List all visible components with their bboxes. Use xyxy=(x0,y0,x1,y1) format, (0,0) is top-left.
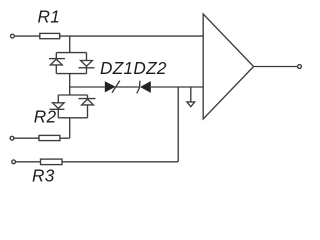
wire DZ1 to DZ2 xyxy=(116,86,140,88)
svg-text:DZ1DZ2: DZ1DZ2 xyxy=(100,58,167,78)
diode D3 (down, left branch) xyxy=(50,95,65,118)
resistor R1 xyxy=(40,33,60,38)
diode D2 (down, right branch) xyxy=(79,53,95,74)
wire node B to DZ1 xyxy=(70,86,105,88)
wire R1 to op-amp input xyxy=(60,35,204,37)
input terminal J2 xyxy=(10,136,14,140)
input terminal J1 xyxy=(11,34,15,38)
wire spine pair2 to R2 wire xyxy=(69,118,71,138)
zener diode DZ2 xyxy=(137,81,151,94)
wire node A down to clamp top rail xyxy=(69,36,71,53)
wire spine pair1 to node B xyxy=(69,74,71,95)
diode D1 (up, left branch) xyxy=(49,53,65,74)
wire J3 to R3 xyxy=(16,161,41,163)
input terminal J3 xyxy=(12,160,16,164)
diode D4 (up, right branch) xyxy=(79,95,96,118)
clamp pair 2 top rail xyxy=(58,94,87,96)
output terminal J4 xyxy=(298,65,302,69)
op-amp U1 xyxy=(203,14,253,119)
resistor R2 xyxy=(39,135,60,140)
wire ground stub xyxy=(190,87,192,102)
wire J1 to R1 xyxy=(15,35,40,37)
svg-text:R1: R1 xyxy=(38,7,61,27)
wire R2 to spine xyxy=(60,137,70,139)
svg-text:R3: R3 xyxy=(32,166,55,183)
zener diode DZ1 xyxy=(105,81,120,93)
clamp pair 2 bottom rail xyxy=(58,117,87,119)
ground xyxy=(187,102,195,107)
resistor R3 xyxy=(41,159,63,165)
clamp pair 1 bottom rail xyxy=(56,73,86,75)
svg-text:R2: R2 xyxy=(34,106,57,126)
wire riser up to node C xyxy=(177,87,179,162)
wire R3 to riser xyxy=(62,161,178,163)
wire J2 to R2 xyxy=(14,137,39,139)
clamp pair 1 top rail xyxy=(56,52,86,54)
wire DZ2 to op-amp input xyxy=(151,86,203,88)
wire op-amp output xyxy=(254,66,298,68)
